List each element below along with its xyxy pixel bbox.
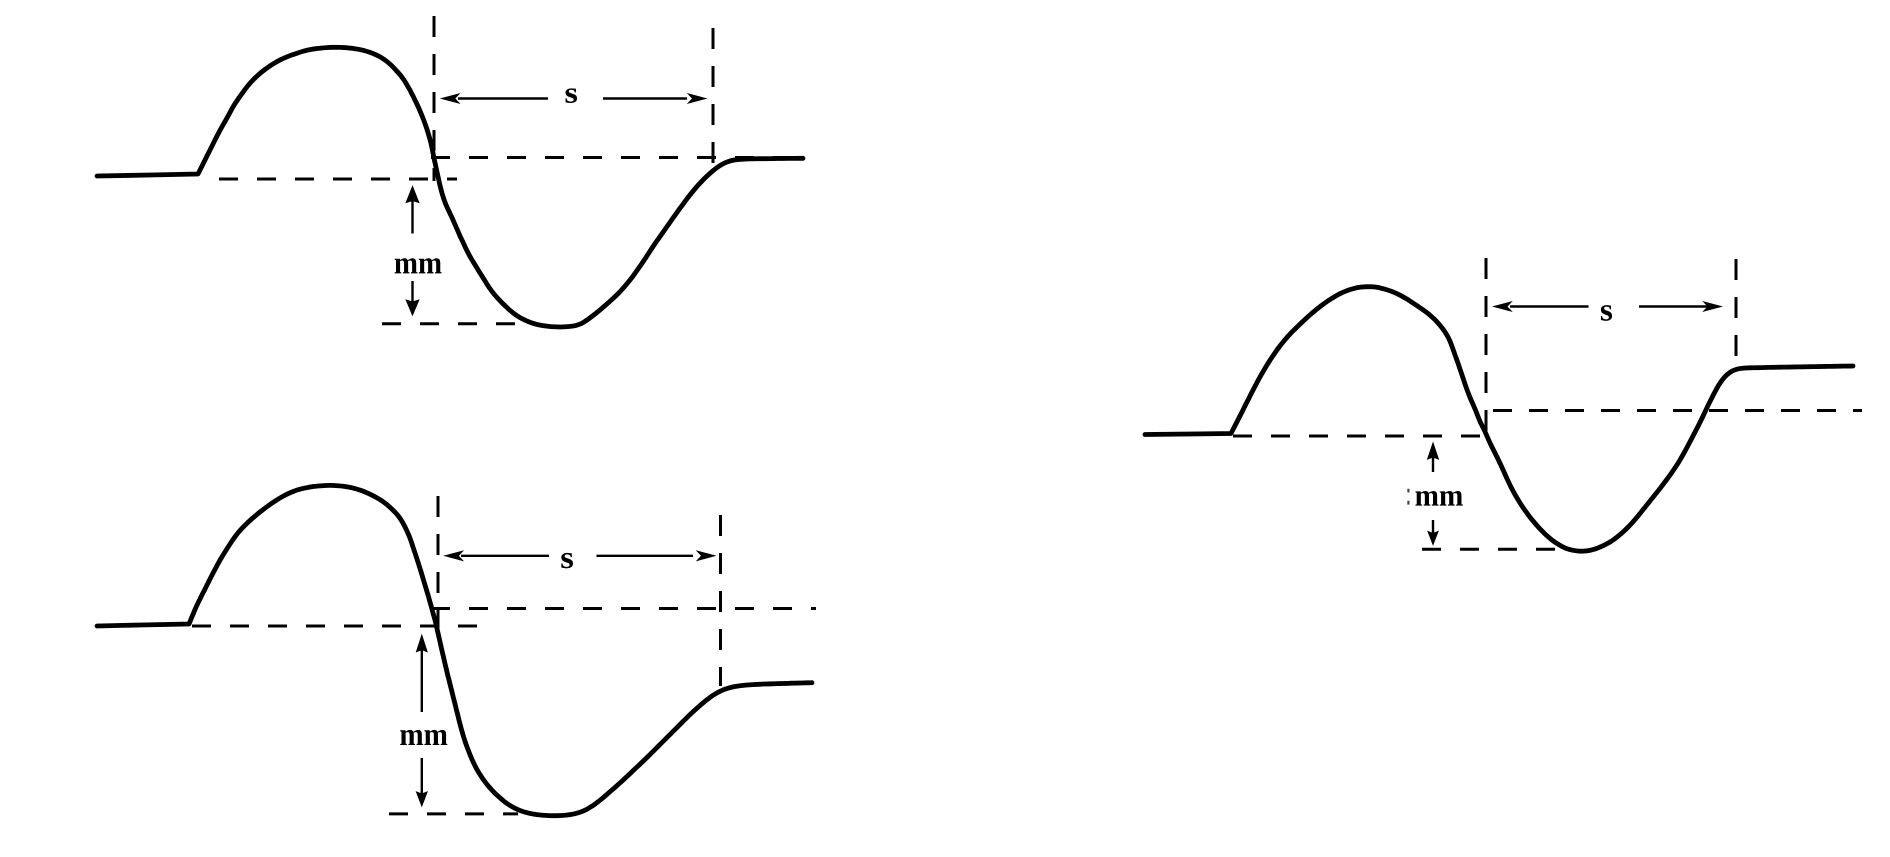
dashed final-level line, diagram 3 xyxy=(1493,409,1862,412)
dashed vertical line at zero-crossing, diagram 1 xyxy=(433,16,436,181)
width arrow s, diagram 1 xyxy=(441,94,706,104)
label mm, diagram 2 xyxy=(400,730,447,745)
width arrow s, diagram 2 xyxy=(445,551,715,561)
label s, diagram 2 xyxy=(561,553,573,568)
dashed final-level line, diagram 2 xyxy=(431,607,816,610)
depth arrows mm, diagram 2 xyxy=(417,635,428,806)
label s, diagram 1 xyxy=(565,88,577,103)
dashed vertical line at pulse end, diagram 2 xyxy=(719,515,722,686)
waveform pulse curve, diagram 3 (right) xyxy=(1145,287,1853,551)
dashed trough-level line, diagram 1 xyxy=(382,322,532,325)
dashed trough-level line, diagram 3 xyxy=(1422,548,1560,551)
dashed trough-level line, diagram 2 xyxy=(389,812,518,815)
dashed baseline, diagram 3 xyxy=(1233,435,1488,438)
dashed baseline, diagram 1 xyxy=(219,178,457,181)
dashed vertical line at pulse end, diagram 1 xyxy=(712,28,715,164)
dashed baseline, diagram 2 xyxy=(192,625,488,628)
waveform pulse curve, diagram 2 (bottom-left) xyxy=(97,485,812,815)
waveform pulse curve, diagram 1 (top-left) xyxy=(97,47,803,327)
dashed final-level line, diagram 1 xyxy=(431,156,803,159)
dashed vertical line at pulse end, diagram 3 xyxy=(1735,259,1738,368)
width arrow s, diagram 3 xyxy=(1494,302,1722,312)
label s, diagram 3 xyxy=(1601,305,1612,321)
depth arrows mm, diagram 1 xyxy=(406,187,419,316)
label mm, diagram 1 xyxy=(395,258,442,273)
dashed vertical line at zero-crossing, diagram 2 xyxy=(437,496,440,631)
depth arrows mm, diagram 3 xyxy=(1428,443,1439,545)
dashed vertical line at zero-crossing, diagram 3 xyxy=(1485,258,1488,441)
stray scan mark (colon) left of mm, diagram 3 xyxy=(1407,489,1409,505)
label mm, diagram 3 xyxy=(1415,491,1462,506)
